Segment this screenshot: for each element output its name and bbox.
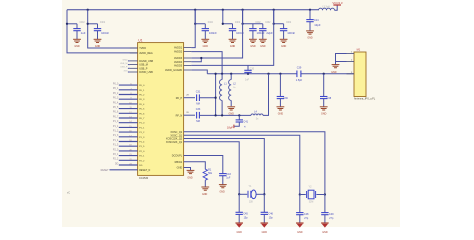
svg-text:P0_2: P0_2 bbox=[113, 93, 119, 95]
junction AVDD3/AVDD4 bbox=[200, 57, 202, 59]
svg-text:11: 11 bbox=[130, 107, 132, 109]
wire cap C24 bottom lead bbox=[309, 22, 311, 31]
ground under C21 bbox=[249, 39, 257, 42]
ground under C46 bbox=[261, 223, 269, 228]
svg-text:XOSC32K_Q1: XOSC32K_Q1 bbox=[166, 141, 183, 144]
wire P0_5 bbox=[119, 108, 138, 110]
pin stub left DVDD_USB bbox=[130, 71, 138, 73]
ground under R1 bbox=[201, 187, 209, 190]
svg-text:16: 16 bbox=[129, 131, 131, 133]
svg-text:USB_P: USB_P bbox=[139, 67, 148, 70]
svg-text:TVDD: TVDD bbox=[139, 47, 146, 50]
svg-text:RF_N: RF_N bbox=[176, 114, 183, 117]
junction rail 222.1 bbox=[221, 73, 223, 75]
svg-text:DCOUPL: DCOUPL bbox=[172, 155, 183, 158]
junction on AVDD rail x=195.2 bbox=[194, 9, 196, 11]
pin stub right AVDD2 bbox=[184, 51, 192, 53]
wire P0_6 bbox=[119, 112, 138, 114]
junction RF_N node bbox=[214, 114, 216, 116]
wire RF rail right bbox=[301, 73, 354, 75]
wire L3 to VCC bbox=[335, 5, 338, 10]
pin stub left USB_P bbox=[130, 67, 138, 69]
capacitor C38 bbox=[320, 97, 327, 99]
svg-text:DGND_USB: DGND_USB bbox=[139, 60, 153, 63]
svg-text:P0_5: P0_5 bbox=[139, 109, 145, 111]
svg-text:C38: C38 bbox=[327, 97, 332, 100]
pin stub right AVDD3 bbox=[184, 57, 192, 59]
wire P1_3 bbox=[119, 136, 138, 138]
wire C48 gnd lead bbox=[299, 215, 301, 223]
capacitor C39 series bbox=[297, 71, 301, 78]
svg-text:C41: C41 bbox=[243, 121, 248, 124]
wire drop to C23 bbox=[274, 10, 284, 24]
svg-text:M1: M1 bbox=[357, 48, 361, 52]
svg-text:USB_M: USB_M bbox=[139, 64, 148, 67]
svg-text:22: 22 bbox=[129, 159, 131, 161]
svg-text:CC2530: CC2530 bbox=[139, 177, 149, 180]
svg-text:RESET: RESET bbox=[101, 169, 110, 172]
ground under C43 bbox=[219, 185, 227, 188]
capacitor C49 bbox=[321, 213, 328, 215]
svg-text:P1_2: P1_2 bbox=[139, 132, 145, 134]
svg-text:1nF: 1nF bbox=[245, 80, 250, 82]
svg-text:27p: 27p bbox=[304, 217, 309, 220]
svg-text:RF_P: RF_P bbox=[176, 97, 183, 100]
svg-text:P1_3: P1_3 bbox=[113, 135, 119, 137]
wire AVDD1 to rail bbox=[191, 10, 195, 48]
wire to pin USB_P bbox=[128, 67, 130, 69]
wire cap C19 bottom lead bbox=[204, 31, 206, 40]
svg-text:P0_0: P0_0 bbox=[113, 84, 119, 86]
wire XOSC_Q2 bbox=[184, 132, 325, 195]
wire L2 top lead bbox=[230, 74, 232, 80]
svg-text:P1_4: P1_4 bbox=[113, 140, 119, 142]
svg-text:P2_1: P2_1 bbox=[113, 154, 119, 156]
wire C36 top lead bbox=[279, 74, 281, 97]
svg-text:L3 2uH: L3 2uH bbox=[322, 7, 330, 9]
svg-text:GND: GND bbox=[230, 45, 236, 48]
pin stub antenna 3 bbox=[347, 73, 355, 75]
junction rail 231.2 bbox=[230, 73, 232, 75]
junction at cap stub C19 bbox=[194, 23, 196, 25]
wire drop to C56 bbox=[88, 23, 98, 25]
svg-text:RESET_N: RESET_N bbox=[139, 169, 150, 172]
wire XT1 right lead bbox=[256, 193, 264, 195]
ground under C19 bbox=[201, 39, 209, 42]
wire RF_N line bbox=[199, 114, 251, 116]
svg-text:P0_1: P0_1 bbox=[113, 88, 119, 90]
svg-text:1uF: 1uF bbox=[81, 31, 86, 35]
wire C49 gnd lead bbox=[324, 215, 326, 223]
capacitor C45 bbox=[236, 212, 243, 214]
wire DCOUPL bbox=[184, 156, 223, 174]
svg-text:GND: GND bbox=[237, 231, 243, 234]
wire node vertical 215.6 bbox=[215, 74, 217, 116]
wire P2_1 bbox=[119, 155, 138, 157]
inductor L1 bbox=[220, 80, 223, 101]
capacitor C30 bbox=[244, 70, 251, 72]
svg-text:AVDD_REG: AVDD_REG bbox=[139, 52, 153, 55]
ground under C38 bbox=[320, 107, 328, 110]
pin stub left USB_M bbox=[130, 64, 138, 66]
wire cap C22 bottom lead bbox=[262, 31, 264, 40]
wire antenna pin1 bbox=[336, 54, 347, 62]
junction at cap stub C21 bbox=[241, 23, 243, 25]
wire RBIAS bbox=[184, 162, 206, 170]
wire antenna pin2 bbox=[336, 61, 347, 63]
capacitor C48 bbox=[296, 213, 303, 215]
svg-text:GND: GND bbox=[297, 231, 303, 234]
svg-text:P0_7: P0_7 bbox=[139, 118, 145, 120]
junction L1 bottom bbox=[221, 114, 223, 116]
svg-text:GND: GND bbox=[321, 113, 327, 116]
svg-text:9: 9 bbox=[130, 98, 131, 100]
wire AVDD2 to RF feed bbox=[191, 52, 222, 74]
pin stub left DGND_USB bbox=[130, 60, 138, 62]
ground antenna bbox=[332, 65, 340, 68]
svg-text:C49: C49 bbox=[329, 213, 334, 216]
wire to pin USB_M bbox=[128, 64, 130, 66]
wire P0_2 bbox=[119, 94, 138, 96]
svg-text:GND: GND bbox=[278, 113, 284, 116]
wire RF rail bbox=[207, 73, 297, 75]
wire P1_2 bbox=[119, 131, 138, 133]
svg-text:P1_5: P1_5 bbox=[113, 145, 119, 147]
ground under C36 bbox=[277, 107, 285, 110]
crystal Y2 bbox=[307, 190, 316, 199]
svg-text:GND: GND bbox=[331, 71, 337, 74]
antenna connector J1 body bbox=[354, 52, 366, 97]
svg-text:GND: GND bbox=[202, 193, 208, 196]
svg-text:P0_0: P0_0 bbox=[139, 85, 145, 87]
svg-text:P1_3: P1_3 bbox=[139, 137, 145, 139]
capacitor C23 bbox=[280, 29, 287, 31]
wire AVDD4 tie bbox=[191, 58, 201, 62]
junction rail 248 bbox=[247, 73, 249, 75]
wire L1 bottom lead bbox=[221, 100, 223, 115]
svg-text:C31: C31 bbox=[196, 91, 201, 94]
junction at cap stub C55 bbox=[66, 23, 68, 25]
svg-text:P0_7: P0_7 bbox=[113, 116, 119, 118]
svg-text:P0_6: P0_6 bbox=[139, 113, 145, 115]
svg-text:AVDD_GUARD: AVDD_GUARD bbox=[165, 69, 182, 72]
ground under C23 bbox=[280, 39, 288, 42]
svg-text:RBIAS: RBIAS bbox=[175, 161, 183, 164]
svg-text:vC: vC bbox=[67, 191, 70, 194]
pin stub right AVDD5 bbox=[184, 64, 192, 66]
wire cap C20 top lead bbox=[232, 24, 234, 29]
wire drop to C21 bbox=[243, 10, 263, 24]
svg-text:0402: 0402 bbox=[80, 22, 86, 24]
svg-text:VCC3.3: VCC3.3 bbox=[332, 1, 343, 5]
svg-text:20: 20 bbox=[129, 149, 131, 151]
wire C38 top lead bbox=[323, 74, 325, 97]
svg-text:32M: 32M bbox=[309, 202, 314, 204]
svg-text:0402: 0402 bbox=[235, 22, 241, 24]
svg-text:P0_5: P0_5 bbox=[113, 107, 119, 109]
svg-text:0402: 0402 bbox=[255, 22, 261, 24]
junction at cap stub C56 bbox=[87, 23, 89, 25]
wire P2_2 bbox=[119, 159, 138, 161]
pin stub left AVDD_REG bbox=[130, 52, 138, 54]
svg-text:GND: GND bbox=[123, 59, 128, 61]
ground under C55 bbox=[73, 39, 81, 42]
svg-text:32K: 32K bbox=[249, 201, 254, 203]
junction XT2 left bbox=[299, 193, 301, 195]
svg-text:22pF: 22pF bbox=[266, 31, 273, 35]
junction XT1 right bbox=[263, 193, 265, 195]
wire L1 top lead bbox=[221, 74, 223, 80]
svg-text:GND: GND bbox=[322, 231, 328, 234]
junction RF_P node bbox=[214, 97, 216, 99]
wire left rail A to pin AVDD_REG bbox=[67, 10, 138, 53]
wire AVDD3 bus to rail bbox=[191, 10, 242, 58]
junction RF_N C41 bbox=[238, 114, 240, 116]
junction at cap stub C23 bbox=[273, 23, 275, 25]
wire cap C21 bottom lead bbox=[252, 31, 254, 40]
svg-text:0402: 0402 bbox=[100, 22, 106, 24]
wire R1 bottom lead bbox=[204, 180, 206, 187]
wire drop to C19 bbox=[195, 10, 205, 24]
wire GND pin bbox=[184, 168, 191, 171]
wire P1_1 bbox=[119, 126, 138, 128]
junction on AVDD rail x=242.6 bbox=[241, 9, 243, 11]
svg-text:P1_0: P1_0 bbox=[139, 123, 145, 125]
svg-text:NM: NM bbox=[196, 103, 200, 106]
junction on AVDD rail x=273.7 bbox=[273, 9, 275, 11]
wire P1_5 bbox=[119, 145, 138, 147]
power port bar 18p bbox=[233, 125, 235, 129]
wire drop to C55 bbox=[67, 23, 77, 25]
wire left rail B to pin DVDD bbox=[88, 10, 138, 48]
wire RF_P to C31 bbox=[184, 97, 195, 99]
wire XT2 right lead bbox=[316, 194, 325, 196]
svg-text:GND: GND bbox=[95, 45, 101, 48]
svg-text:P2_0: P2_0 bbox=[139, 151, 145, 153]
wire P0_3 bbox=[119, 98, 138, 100]
svg-text:P0_4: P0_4 bbox=[113, 102, 119, 104]
svg-text:GND: GND bbox=[262, 231, 268, 234]
svg-text:Antenna_IPX_u.FL: Antenna_IPX_u.FL bbox=[354, 98, 376, 101]
svg-text:0402: 0402 bbox=[286, 22, 292, 24]
wire to pin 3V3 bbox=[128, 71, 130, 73]
wire L4 to riser bbox=[263, 74, 269, 116]
wire AVDD5 guard bus bbox=[191, 10, 273, 66]
svg-text:18: 18 bbox=[129, 140, 131, 142]
wire XT1 right cap lead bbox=[263, 194, 265, 212]
svg-text:GND: GND bbox=[187, 176, 193, 179]
pin stub right AVDD1 bbox=[184, 47, 192, 49]
wire P0_0 bbox=[119, 84, 138, 86]
junction on AVDD rail x=310 bbox=[309, 9, 311, 11]
svg-text:P1_1: P1_1 bbox=[139, 127, 145, 129]
pin stub antenna 2 bbox=[347, 61, 355, 63]
svg-text:GND: GND bbox=[177, 167, 183, 170]
wire antenna gnd stub bbox=[335, 62, 337, 65]
wire RF_N to C33 bbox=[184, 114, 195, 116]
ground chip GND pin bbox=[187, 170, 195, 173]
svg-text:GND: GND bbox=[74, 45, 80, 48]
svg-text:USB_M: USB_M bbox=[120, 63, 128, 65]
wire XT1 left lead bbox=[239, 193, 247, 195]
svg-text:P0_3: P0_3 bbox=[113, 98, 119, 100]
svg-text:GND: GND bbox=[260, 45, 266, 48]
wire C36 bottom lead bbox=[279, 99, 281, 107]
svg-text:19: 19 bbox=[129, 145, 131, 147]
svg-text:6: 6 bbox=[130, 84, 131, 86]
svg-text:P0_2: P0_2 bbox=[139, 95, 145, 97]
svg-text:15: 15 bbox=[129, 126, 131, 128]
inductor L3 bbox=[319, 8, 335, 10]
wire cap C22 top lead bbox=[262, 24, 264, 29]
wire cap C21 top lead bbox=[252, 24, 254, 29]
wire P0_7 bbox=[119, 117, 138, 119]
wire C43 bottom lead bbox=[222, 176, 224, 185]
wire XT2 left cap lead bbox=[299, 195, 301, 213]
ground under C49 bbox=[321, 223, 329, 228]
ground under C22 bbox=[259, 39, 267, 42]
svg-text:P0_1: P0_1 bbox=[139, 90, 145, 92]
capacitor C46 bbox=[261, 212, 268, 214]
svg-text:GND: GND bbox=[250, 45, 256, 48]
svg-text:P2_1: P2_1 bbox=[139, 156, 145, 158]
svg-text:12: 12 bbox=[129, 112, 131, 114]
wire C31 to node bbox=[199, 97, 215, 99]
capacitor C22 bbox=[259, 29, 266, 31]
svg-text:1uF: 1uF bbox=[226, 177, 231, 180]
capacitor C31 series bbox=[197, 94, 200, 101]
svg-text:18pF: 18pF bbox=[227, 125, 233, 129]
ground under C24 bbox=[306, 31, 314, 34]
svg-text:27p: 27p bbox=[329, 217, 334, 220]
svg-text:GND: GND bbox=[281, 45, 287, 48]
svg-text:DD: DD bbox=[115, 163, 119, 165]
capacitor C19 bbox=[202, 29, 209, 31]
wire cap C19 top lead bbox=[204, 24, 206, 29]
svg-text:P1_2: P1_2 bbox=[113, 131, 119, 133]
svg-text:23: 23 bbox=[129, 164, 131, 166]
svg-text:AVDD3: AVDD3 bbox=[174, 57, 183, 60]
capacitor C55 bbox=[73, 29, 80, 31]
junction at cap stub C20 bbox=[222, 23, 224, 25]
wire P1_0 bbox=[119, 122, 138, 124]
svg-text:P0_4: P0_4 bbox=[139, 104, 145, 106]
capacitor C20 bbox=[229, 29, 236, 31]
svg-text:C33: C33 bbox=[196, 108, 201, 111]
capacitor C33 series bbox=[197, 112, 200, 119]
wire cap C55 top lead bbox=[76, 24, 78, 29]
svg-text:P2_0: P2_0 bbox=[113, 149, 119, 151]
inductor L2 bbox=[229, 80, 232, 101]
svg-text:USB_P: USB_P bbox=[120, 67, 128, 69]
wire RESET_N bbox=[110, 169, 138, 171]
svg-text:C24: C24 bbox=[314, 18, 319, 22]
svg-text:8: 8 bbox=[130, 93, 131, 95]
IC U1 body bbox=[138, 43, 184, 176]
svg-text:AVDD5: AVDD5 bbox=[174, 65, 183, 68]
crystal Y1 bbox=[248, 190, 256, 199]
wire drop to C20 bbox=[223, 10, 233, 24]
wire C41 top lead bbox=[238, 115, 240, 120]
ground under C20 bbox=[229, 39, 237, 42]
ground under C48 bbox=[296, 223, 304, 228]
svg-text:13: 13 bbox=[129, 117, 131, 119]
svg-text:17: 17 bbox=[129, 135, 131, 137]
wire P1_4 bbox=[119, 141, 138, 143]
junction rail 215.6 bbox=[214, 73, 216, 75]
svg-text:GND: GND bbox=[219, 191, 225, 194]
wire C41 bottom lead bbox=[234, 122, 239, 126]
pin stub left TVDD bbox=[130, 47, 138, 49]
resistor R1 body bbox=[203, 169, 207, 180]
svg-text:C46: C46 bbox=[268, 213, 273, 216]
junction rail 280.4 bbox=[279, 73, 281, 75]
svg-text:21: 21 bbox=[129, 154, 131, 156]
svg-text:P1_4: P1_4 bbox=[139, 142, 145, 144]
junction on AVDD rail x=222.8 bbox=[222, 9, 224, 11]
junction rail 323.7 bbox=[323, 73, 325, 75]
svg-text:C39: C39 bbox=[297, 67, 302, 70]
svg-text:DD: DD bbox=[139, 165, 143, 167]
wire cap C56 top lead bbox=[97, 24, 99, 29]
wire C30 bottom lead bbox=[247, 72, 249, 73]
wire XT2 left lead bbox=[300, 194, 306, 196]
wire P0_4 bbox=[119, 103, 138, 105]
svg-text:1.5pF: 1.5pF bbox=[296, 79, 303, 82]
svg-text:NM: NM bbox=[196, 120, 200, 123]
wire cap C23 bottom lead bbox=[283, 31, 285, 40]
svg-text:15p: 15p bbox=[269, 217, 274, 220]
wire cap C23 top lead bbox=[283, 24, 285, 29]
wire XT2 right cap lead bbox=[324, 195, 326, 213]
wire L2 bottom lead bbox=[230, 100, 232, 106]
junction XT2 right bbox=[324, 193, 326, 195]
wire C30 top lead bbox=[247, 65, 249, 70]
wire XOSC32K_Q1 bbox=[184, 142, 240, 195]
wire AVDD top rail bbox=[67, 9, 319, 11]
wire cap C56 bottom lead bbox=[97, 31, 99, 40]
wire cap C24 top lead bbox=[309, 10, 311, 20]
capacitor C21 bbox=[249, 29, 256, 31]
junction rail 268.5 bbox=[267, 73, 269, 75]
wire AVDD_GUARD to RF rail bbox=[191, 70, 207, 74]
junction XT1 left bbox=[238, 193, 240, 195]
svg-text:100nF: 100nF bbox=[101, 31, 109, 35]
wire cap C20 bottom lead bbox=[232, 31, 234, 40]
svg-text:U1: U1 bbox=[138, 38, 142, 42]
pin stub antenna 1 bbox=[347, 53, 355, 55]
svg-text:13pF: 13pF bbox=[314, 23, 321, 27]
ground under C45 bbox=[235, 223, 243, 228]
svg-text:P1_1: P1_1 bbox=[113, 126, 119, 128]
capacitor C43 bbox=[219, 174, 226, 176]
svg-text:GND: GND bbox=[307, 36, 313, 39]
wire C46 gnd lead bbox=[263, 214, 265, 222]
svg-text:C45: C45 bbox=[243, 213, 248, 216]
capacitor C41 bbox=[236, 120, 243, 122]
svg-text:100nF: 100nF bbox=[209, 31, 217, 35]
svg-text:P1_5: P1_5 bbox=[139, 146, 145, 148]
svg-text:100nF: 100nF bbox=[287, 31, 295, 35]
wire P2_0 bbox=[119, 150, 138, 152]
svg-text:0402: 0402 bbox=[208, 22, 214, 24]
capacitor C24 bbox=[306, 20, 313, 22]
inductor L4 bbox=[251, 114, 263, 116]
svg-text:GND: GND bbox=[229, 113, 235, 116]
wire to pin GND bbox=[128, 60, 130, 62]
svg-text:15p: 15p bbox=[244, 217, 249, 220]
wire cap C55 bottom lead bbox=[76, 31, 78, 40]
